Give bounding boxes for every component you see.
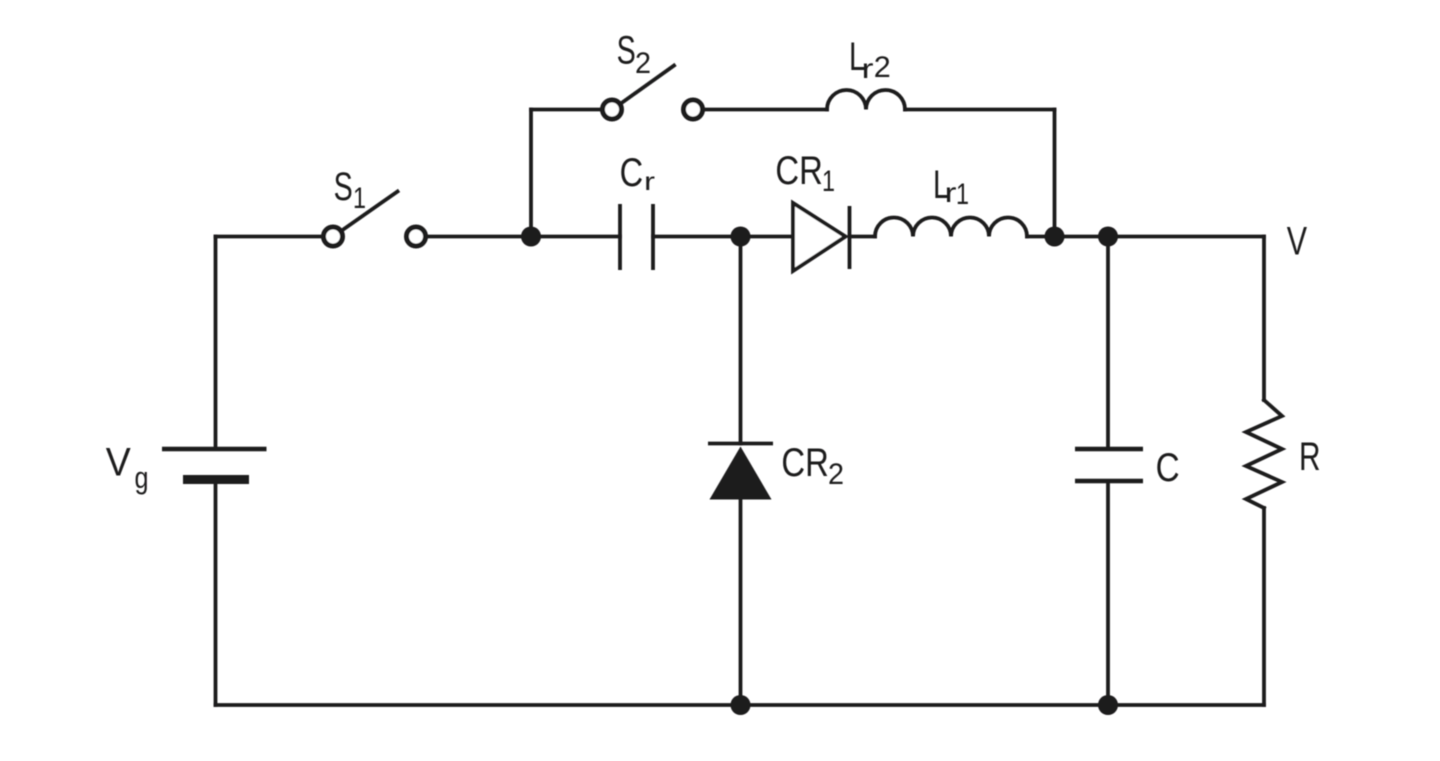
svg-text:g: g [135,460,149,495]
node junction at CR2 tap [731,227,751,247]
wire S2 top horizontal [531,108,601,112]
label CR1 [775,149,835,198]
wire CR1 to Lr1 [850,235,876,239]
svg-text:2: 2 [635,47,651,80]
label S2 [617,29,651,81]
capacitor Cr right plate [651,204,655,270]
svg-text:V: V [1287,220,1308,264]
wire CR2 branch upper [739,237,743,444]
svg-text:S: S [334,165,353,209]
inductor Lr2 [827,90,905,110]
svg-text:R: R [1299,435,1321,479]
wire left rail bottom [214,480,218,705]
node junction C tap [1098,227,1118,247]
capacitor C bottom plate [1075,479,1143,483]
diode CR2 triangle (filled) [710,447,772,500]
wire S2 riser [529,110,533,237]
wire main rail: Lr1 to right corner [1027,235,1264,239]
label V output [1287,220,1308,264]
wire Lr2 to corner [905,108,1055,112]
svg-text:1: 1 [822,165,835,198]
wire CR2 branch lower [739,499,743,705]
diode CR1 triangle [793,203,846,271]
node junction at S2 tap [521,227,541,247]
switch S1 left contact [324,227,343,246]
switch S2 left contact [603,100,622,119]
switch S2 blade [622,66,675,104]
label C [1156,446,1180,490]
battery Vg top plate [162,447,267,452]
inductor Lr1 [875,218,1027,237]
wire S2 to Lr2 [705,108,828,112]
wire main rail: left corner to S1 [216,235,322,239]
capacitor Cr left plate [618,204,622,270]
svg-text:r: r [945,177,957,208]
svg-text:C: C [620,151,644,195]
svg-text:CR: CR [775,149,822,193]
node junction Lr2 drop [1045,227,1065,247]
diode CR1 cathode bar [848,206,852,269]
switch S1 blade [343,192,398,231]
label CR2 [781,441,844,491]
resistor R zigzag [1246,400,1282,508]
wire main rail: S1 to Cr [428,235,621,239]
switch S2 right contact [684,100,703,119]
label Vg [106,441,149,496]
svg-text:S: S [617,29,636,73]
battery Vg bottom plate [183,475,249,484]
node junction C bottom [1098,695,1118,715]
wire C branch upper [1106,237,1110,450]
svg-text:1: 1 [353,182,366,215]
svg-text:r: r [862,53,874,84]
svg-text:2: 2 [828,458,844,491]
wire Lr2 drop riser [1053,110,1057,237]
wire left rail top [214,237,218,450]
svg-text:1: 1 [956,178,969,211]
svg-text:V: V [106,441,131,485]
label Lr2 [849,35,891,84]
diode CR2 cathode bar [708,442,773,446]
label S1 [334,165,366,215]
wire C branch lower [1106,481,1110,705]
label R [1299,435,1321,479]
svg-text:r: r [644,168,655,196]
svg-text:2: 2 [874,51,891,84]
switch S1 right contact [407,227,426,246]
svg-text:C: C [1156,446,1180,490]
node junction CR2 bottom [731,695,751,715]
wire right rail bottom [1262,508,1266,705]
label Lr1 [933,163,969,211]
svg-text:CR: CR [781,441,828,485]
label Cr [620,151,655,196]
wire right rail top [1262,237,1266,401]
wire bottom rail [216,703,1265,707]
wire main rail: Cr to CR1 [653,235,793,239]
capacitor C top plate [1075,447,1143,451]
